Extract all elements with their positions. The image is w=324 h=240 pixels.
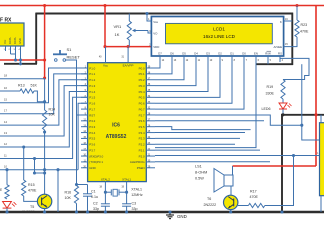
C2 label (93, 202, 99, 212)
capacitor C1 (83, 194, 92, 196)
junction VR1 bottom (127, 45, 130, 48)
junction T6 bus (229, 210, 232, 213)
wire row10 to bus (57, 170, 59, 212)
LCD right labels (273, 20, 282, 49)
pin 18 label (99, 186, 102, 189)
junction R15 feed (22, 145, 25, 148)
LED LED5 (3, 202, 17, 209)
wire LCD D6 to P0 (155, 62, 172, 74)
ground black line under LCD (B5) (256, 63, 293, 65)
wire P2.4 row (155, 132, 245, 134)
resistor R16 (74, 186, 78, 204)
junction C2 bus (104, 210, 107, 213)
wire VR1 bottom (128, 40, 130, 47)
svg-text:0.1u: 0.1u (91, 195, 98, 199)
wire left row to P1.5 (0, 97, 88, 158)
wire LED5 to bus (6, 208, 8, 212)
svg-text:D0: D0 (242, 52, 246, 56)
wire R15 feed (23, 147, 25, 180)
LED6 label (262, 107, 271, 111)
svg-text:Vss: Vss (153, 20, 158, 24)
LCD pin3 number (149, 30, 151, 33)
svg-text:P3.6: P3.6 (89, 143, 95, 147)
svg-text:RESET: RESET (67, 55, 81, 60)
svg-text:C1: C1 (91, 190, 96, 194)
junction C1 bus (86, 210, 89, 213)
T5 label (22, 205, 35, 214)
wire box pin vertical (265, 156, 294, 206)
ground black line right vertical (B4) (291, 13, 293, 65)
svg-text:P2.2: P2.2 (139, 143, 145, 147)
junction row10 red A line (43, 168, 46, 171)
svg-text:470E: 470E (300, 30, 309, 34)
svg-text:P0.3: P0.3 (139, 84, 145, 88)
wire row18 to red A (0, 78, 45, 80)
wire row16 left (0, 90, 20, 92)
LCD pin1 wire to ground (147, 14, 151, 22)
junction RF RX data to red (14, 58, 17, 61)
svg-text:GND: GND (89, 166, 95, 170)
LCD A wire to R23 (284, 37, 297, 47)
svg-text:T6: T6 (207, 197, 211, 201)
wire box pin right (294, 155, 320, 157)
svg-text:RS: RS (278, 52, 282, 56)
svg-text:P0.4: P0.4 (139, 90, 145, 94)
junction +5V/R23 (295, 4, 298, 7)
wire LCD D0 to P0 (155, 62, 244, 109)
cut resistor label (0, 188, 2, 192)
+5V top power rail (0, 5, 324, 7)
svg-text:EN: EN (254, 52, 258, 56)
svg-text:GND: GND (177, 214, 187, 219)
svg-text:P3.2: P3.2 (89, 119, 95, 123)
svg-text:DATA: DATA (13, 37, 17, 44)
svg-text:0.5W: 0.5W (195, 177, 204, 181)
wire left row to P1.4 (0, 92, 88, 148)
junction R13 jog (43, 100, 46, 103)
svg-text:R16: R16 (65, 191, 72, 195)
svg-text:PSEN: PSEN (137, 166, 145, 170)
ground black line left vertical (B2) (35, 13, 37, 64)
ground black vertical right (B7) (281, 114, 283, 212)
wire LCD D3 to P0 (155, 62, 208, 91)
wire x34.5 tie (35, 159, 45, 174)
wire P2.2 row (155, 143, 235, 145)
R16 label (65, 191, 72, 201)
svg-text:F RX: F RX (0, 18, 12, 24)
resistor R14 (43, 110, 47, 130)
C1 label (91, 190, 98, 200)
wire LCD RW to ground (267, 62, 269, 64)
junction T5 bus (43, 210, 46, 213)
wire T6 base to R17 (238, 205, 249, 207)
wire box bottom to bus (320, 196, 322, 212)
svg-text:R13: R13 (18, 84, 25, 88)
svg-text:S1: S1 (67, 47, 73, 52)
RF RX pin labels (3, 37, 22, 44)
XTAL1 label (131, 188, 143, 197)
junction y173 tie (43, 171, 46, 174)
junction LED6 black (281, 113, 284, 116)
wire C1 to bus (87, 196, 89, 212)
wire R15 to T5 base (24, 196, 38, 201)
R13 label (18, 84, 37, 88)
svg-text:LED6: LED6 (262, 107, 271, 111)
C3 label (132, 202, 138, 212)
svg-text:D5: D5 (182, 52, 186, 56)
svg-text:P1.1: P1.1 (89, 72, 95, 76)
ground black line LED6 row (B6) (281, 114, 324, 116)
svg-text:51K: 51K (31, 84, 38, 88)
junction RF RX gnd crossing (19, 58, 22, 61)
R15 label (28, 183, 37, 193)
wire LED6 cathode (282, 109, 284, 115)
LS1 label (195, 165, 207, 181)
svg-text:R19: R19 (267, 85, 274, 89)
junction RF RX gnd to black (19, 62, 22, 65)
resistor R23 (295, 20, 299, 37)
junction pin1 black (145, 12, 148, 15)
pin 19 label (121, 186, 124, 189)
wire ALE row (155, 161, 270, 163)
junction B7 bus (280, 210, 283, 213)
IC6 Vcc EA stubs (99, 47, 128, 63)
wire T5 emitter (44, 209, 46, 212)
junction LED5 bus (5, 210, 8, 213)
svg-text:P0.1: P0.1 (139, 72, 145, 76)
RF RX label (0, 18, 12, 24)
junction row10 led chain (5, 168, 8, 171)
svg-text:D1: D1 (230, 52, 234, 56)
wire R16 top (76, 115, 78, 186)
svg-text:P0.2: P0.2 (139, 78, 145, 82)
junction R16 bus (75, 210, 78, 213)
svg-text:P3.7: P3.7 (89, 148, 95, 152)
junction C1 tie (75, 183, 78, 186)
svg-text:R23: R23 (301, 23, 308, 27)
svg-text:(TXD)P3.1: (TXD)P3.1 (89, 160, 103, 164)
svg-text:P2.3: P2.3 (139, 137, 145, 141)
svg-text:P3.4: P3.4 (89, 131, 95, 135)
red vertical right x316 (315, 6, 317, 167)
box pin1 label (317, 152, 319, 155)
IC6 top labels (103, 63, 134, 67)
S1 label (67, 47, 81, 60)
resistor R15 (22, 180, 26, 196)
resistor R13 (20, 89, 34, 93)
wire LS1 top to +5V (232, 166, 234, 175)
svg-text:P2.5: P2.5 (139, 125, 145, 129)
svg-text:12MHz: 12MHz (131, 193, 143, 197)
VR1 label (114, 24, 123, 37)
svg-text:P2.4: P2.4 (139, 131, 145, 135)
IC6 name (106, 123, 127, 141)
transistor T6 (224, 195, 238, 209)
crystal XTAL1 (105, 189, 126, 196)
wire LED5 chain top (6, 170, 8, 185)
LCD pin2 number (149, 43, 151, 46)
junction red right at black B6 (314, 113, 317, 116)
potentiometer VR1 (127, 21, 131, 40)
LCD bottom pin stubs (160, 56, 280, 62)
svg-text:R14: R14 (49, 108, 56, 112)
IC6 bottom labels (101, 177, 131, 181)
wire XTAL2 stub (104, 182, 106, 193)
svg-text:P2.6: P2.6 (139, 119, 145, 123)
wire R13 jog (34, 91, 45, 102)
left edge wire labels (4, 74, 7, 169)
svg-text:10K: 10K (65, 196, 72, 200)
svg-text:VR1: VR1 (114, 24, 123, 29)
wire left row to P1.2 (0, 80, 88, 125)
wire VR1 top (128, 14, 130, 22)
svg-text:2N2222: 2N2222 (204, 203, 217, 207)
svg-text:T5: T5 (30, 205, 34, 209)
melody IC box (320, 123, 324, 196)
wire LCD D5 to P0 (155, 62, 184, 80)
svg-text:R17: R17 (250, 190, 257, 194)
wire LCD D7 to P0 (155, 62, 160, 68)
svg-text:P2.7: P2.7 (139, 113, 145, 117)
svg-text:P0.0: P0.0 (139, 66, 145, 70)
svg-text:D6: D6 (170, 52, 174, 56)
svg-text:XTAL1: XTAL1 (122, 177, 131, 181)
VR1 wiper (132, 29, 151, 33)
svg-text:470E: 470E (250, 195, 259, 199)
red horizontal speaker +5V (233, 165, 317, 167)
wire P2.7 row (155, 115, 320, 140)
junction red-A S1 row (43, 58, 46, 61)
svg-text:IC6: IC6 (112, 123, 120, 129)
resistor R19 (281, 80, 285, 100)
wire RS route right (280, 58, 309, 79)
R19 label (266, 85, 275, 96)
wire C1 tie (77, 185, 88, 194)
svg-text:K: K (280, 20, 282, 24)
wire P2.3 row (155, 137, 240, 139)
svg-text:10K: 10K (49, 113, 56, 117)
svg-text:330E: 330E (266, 92, 275, 96)
svg-text:33p: 33p (93, 207, 99, 211)
svg-text:470E: 470E (28, 189, 37, 193)
RF RX module box (0, 23, 24, 46)
svg-text:P2.1: P2.1 (139, 148, 145, 152)
wire P2.6 row (155, 120, 264, 122)
svg-text:P1.2: P1.2 (89, 78, 95, 82)
svg-text:P3.5: P3.5 (89, 137, 95, 141)
red vertical B x105 (104, 6, 106, 47)
ground (166, 212, 187, 219)
svg-text:P0.7: P0.7 (139, 107, 145, 111)
svg-text:P0.6: P0.6 (139, 102, 145, 106)
IC6 left pin labels (83, 66, 103, 170)
svg-text:P1.3: P1.3 (89, 84, 95, 88)
wire P2.0 speaker drive (155, 155, 294, 157)
wire LCD D2 to P0 (155, 62, 220, 97)
wire T6 emitter (230, 210, 232, 212)
svg-text:P2.0: P2.0 (139, 154, 145, 158)
svg-text:GND: GND (18, 38, 22, 44)
svg-text:A/VEE: A/VEE (273, 45, 282, 49)
svg-text:P1.0: P1.0 (89, 66, 95, 70)
svg-text:2N2222: 2N2222 (22, 210, 35, 214)
svg-text:D4: D4 (194, 52, 198, 56)
svg-text:P1.4: P1.4 (89, 90, 95, 94)
junction red-B Vcc row (103, 45, 106, 48)
svg-text:C3: C3 (132, 202, 137, 206)
LCD1 title (203, 27, 236, 40)
wire left row to P1.3 (0, 86, 88, 136)
wire S1 to RST (66, 60, 88, 115)
wire P2.5 row (155, 127, 251, 130)
svg-text:LS1: LS1 (195, 165, 202, 169)
junction gnd bus (168, 210, 171, 213)
svg-text:XTAL2: XTAL2 (101, 177, 110, 181)
svg-text:P0.5: P0.5 (139, 96, 145, 100)
svg-text:33p: 33p (132, 207, 138, 211)
red vertical A x44.6 (44, 6, 46, 79)
LCD left labels (153, 20, 159, 49)
svg-text:LCD1: LCD1 (213, 27, 225, 32)
wire LCD EN route (155, 62, 256, 148)
transistor T5 (37, 194, 51, 208)
wire red A continuation down (44, 78, 46, 110)
wire XTAL1 stub (126, 182, 128, 193)
LCD RW overline (267, 50, 272, 52)
svg-text:D7: D7 (158, 52, 162, 56)
wire LS1 bottom to T6 (230, 186, 232, 195)
speaker LS1 (214, 169, 233, 193)
LCD K wire (284, 18, 293, 21)
junction crystal left (104, 191, 107, 194)
LCD bottom pin numbers (162, 59, 284, 62)
svg-text:R/W: R/W (265, 52, 271, 56)
svg-text:XTAL1: XTAL1 (131, 188, 142, 192)
LCD1 box (151, 17, 283, 57)
svg-text:Vcc: Vcc (103, 63, 109, 67)
svg-text:ALE/PROG: ALE/PROG (130, 160, 146, 164)
junction +5V/red-A (43, 4, 46, 7)
wire left row to P1.0 (0, 68, 88, 103)
ground black line to RF RX (B3) (4, 63, 37, 65)
red horizontal S1 row (0, 59, 45, 61)
svg-text:C2: C2 (93, 202, 98, 206)
svg-text:Vcc: Vcc (3, 39, 7, 44)
red +5V row to LCD VDD (105, 46, 151, 48)
wire P2.1 row (155, 149, 260, 151)
svg-text:P1.6: P1.6 (89, 102, 95, 106)
IC IC6 body (88, 63, 147, 182)
ground bus bottom (B8) (0, 211, 324, 213)
LED LED6 (279, 99, 292, 109)
svg-text:P1.7: P1.7 (89, 107, 95, 111)
wire row10 (0, 169, 78, 171)
svg-text:EA/VPP: EA/VPP (123, 63, 134, 67)
RF RX data tie wire (11, 54, 16, 60)
svg-text:VDD: VDD (153, 45, 159, 49)
junction C3 bus (125, 210, 128, 213)
resistor R17 (248, 203, 264, 207)
resistor LED5 series (5, 185, 9, 199)
switch S1 (53, 50, 67, 61)
wire box top to ground (320, 115, 322, 123)
ground black line top (B1) (36, 13, 293, 15)
svg-text:16x2 LINE LCD: 16x2 LINE LCD (203, 34, 236, 39)
junction R14 bottom (43, 130, 46, 133)
svg-text:D3: D3 (206, 52, 210, 56)
junction +5V/red-B (103, 4, 106, 7)
svg-text:1K: 1K (115, 32, 120, 37)
LCD1 screen (166, 23, 273, 43)
wire row10 to P1.6 (78, 103, 88, 170)
junction red-A row18 (43, 76, 46, 79)
svg-text:(RXD)P3.0: (RXD)P3.0 (89, 154, 103, 158)
R17 label (250, 190, 259, 200)
wire R14 to T5 collector (44, 130, 46, 195)
svg-text:8-OHM: 8-OHM (195, 171, 207, 175)
junction row10-x58 (56, 168, 59, 171)
wire R16 to bus (76, 204, 78, 213)
junction crystal right (125, 191, 128, 194)
svg-text:DATA: DATA (8, 37, 12, 44)
wire left row to P1.1 (0, 74, 88, 114)
junction x34.5 (33, 157, 36, 175)
svg-text:D2: D2 (218, 52, 222, 56)
IC6 right pin labels (130, 66, 151, 170)
svg-text:RST: RST (89, 113, 95, 117)
T6 label (204, 197, 217, 207)
wire LCD D1 to P0 (155, 62, 232, 103)
wire ground stub x301.8 (301, 64, 303, 125)
R23 label (300, 23, 309, 34)
capacitor C3 (122, 192, 131, 212)
svg-text:P1.5: P1.5 (89, 96, 95, 100)
wire R23 top (296, 6, 298, 21)
junction x301.8 (300, 124, 303, 127)
svg-text:E: E (0, 188, 2, 192)
wire LCD RS to R19 chain (279, 58, 281, 62)
junction box pin (292, 154, 295, 157)
svg-text:P3.3: P3.3 (89, 125, 95, 129)
svg-text:R15: R15 (28, 183, 35, 187)
capacitor C2 (101, 192, 110, 212)
svg-text:VO: VO (153, 32, 158, 36)
IC6 pin stubs (81, 68, 155, 168)
RF RX pin stubs (4, 46, 21, 64)
LCD bottom pin labels (158, 52, 282, 56)
R14 label (49, 108, 56, 117)
svg-text:AT89S52: AT89S52 (106, 134, 127, 140)
wire LCD D4 to P0 (155, 62, 196, 86)
